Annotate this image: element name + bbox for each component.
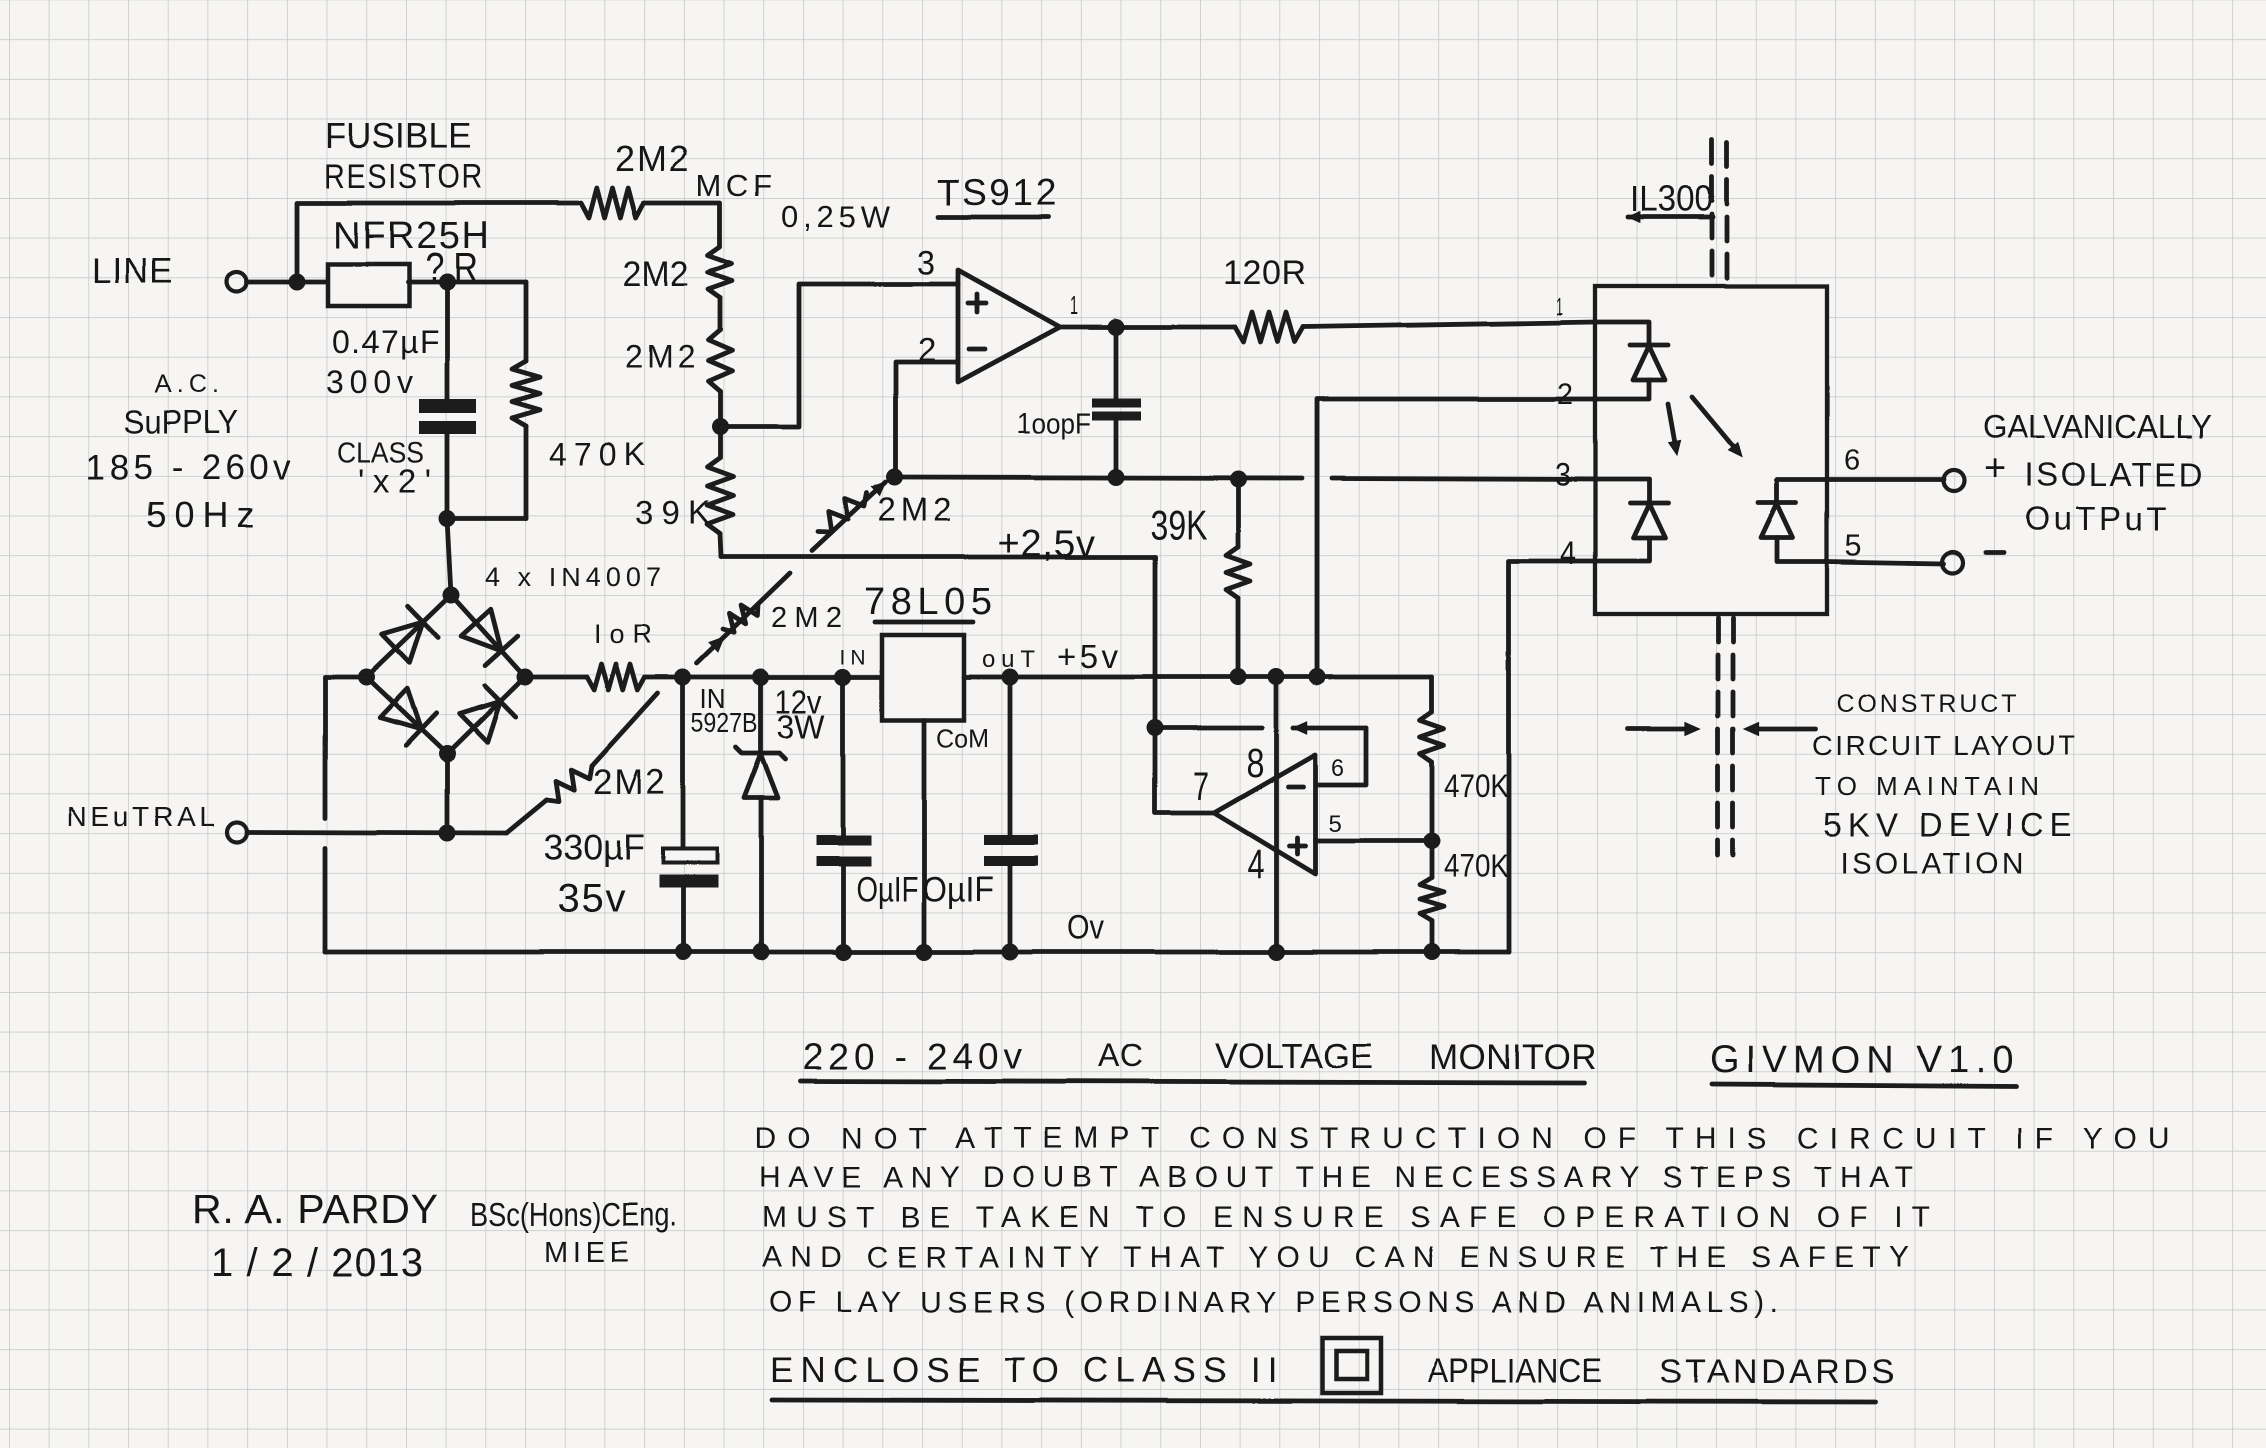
svg-text:1 / 2 / 2013: 1 / 2 / 2013 bbox=[211, 1241, 423, 1285]
svg-text:SuPPLY: SuPPLY bbox=[124, 403, 238, 440]
svg-text:4: 4 bbox=[1560, 535, 1576, 571]
svg-text:2M2: 2M2 bbox=[623, 255, 689, 294]
capacitor C1 plates bbox=[419, 399, 476, 413]
junction C5 on 0V rail bbox=[1002, 944, 1019, 961]
svg-text:4: 4 bbox=[1247, 841, 1264, 887]
svg-text:APPLIANCE: APPLIANCE bbox=[1428, 1352, 1602, 1390]
pot RV2 2M2 arrow line bbox=[697, 573, 790, 663]
svg-text:39K: 39K bbox=[1150, 501, 1207, 548]
U2 PD1 triangle bbox=[1633, 504, 1665, 538]
wire +5V rail bbox=[964, 675, 1432, 680]
junction C3 on 0V rail bbox=[675, 944, 692, 961]
svg-text:VOLTAGE: VOLTAGE bbox=[1215, 1037, 1373, 1076]
junction chain node bbox=[712, 419, 729, 436]
resistor R1 NFR25H fusible (box) bbox=[328, 264, 409, 306]
svg-text:330µF: 330µF bbox=[543, 827, 645, 868]
capacitor C2 bottom lead bbox=[1114, 420, 1119, 477]
svg-text:GALVANICALLY: GALVANICALLY bbox=[1983, 408, 2212, 445]
svg-text:OµIF: OµIF bbox=[856, 870, 918, 909]
junction U1A output node bbox=[1108, 319, 1125, 336]
U2 PD2 bottom lead bbox=[1777, 538, 1827, 562]
junction R11 on 0V rail bbox=[1424, 944, 1441, 961]
junction C3 on supply rail bbox=[675, 669, 692, 686]
wire 0V rail bbox=[325, 950, 1509, 955]
bridge edge wire bottom-left bbox=[366, 677, 447, 754]
resistor R6 470K bbox=[512, 361, 540, 426]
svg-text:7: 7 bbox=[1193, 765, 1209, 809]
U2 photodiode PD1 top lead bbox=[1595, 479, 1649, 503]
junction divider mid node bbox=[1424, 833, 1441, 850]
bridge edge wire bottom-right bbox=[447, 677, 525, 754]
wire LINE terminal to junction bbox=[247, 280, 297, 285]
U2 LED triangle bbox=[1633, 346, 1665, 380]
wire LINE node up and over to R2 bbox=[297, 203, 578, 282]
wire R3 to R4 bbox=[718, 298, 723, 330]
svg-text:CoM: CoM bbox=[936, 723, 989, 753]
resistor R9 39K bbox=[1226, 547, 1250, 598]
wire R2 to resistor chain top bbox=[644, 203, 720, 247]
svg-text:ISOLATED: ISOLATED bbox=[2025, 456, 2203, 493]
svg-text:5: 5 bbox=[1328, 811, 1341, 838]
enclose underline bbox=[772, 1400, 1875, 1402]
svg-text:1: 1 bbox=[1556, 293, 1563, 321]
wire left rail lower segment bbox=[323, 848, 328, 952]
svg-text:220 - 240v: 220 - 240v bbox=[803, 1036, 1023, 1077]
title underline left bbox=[801, 1081, 1584, 1083]
junction Z1 on supply rail bbox=[753, 669, 770, 686]
op-amp U1A minus sign bbox=[969, 347, 985, 352]
junction C4 on supply rail bbox=[835, 669, 852, 686]
wire R8 to IL300 pin1 bbox=[1303, 322, 1595, 327]
svg-text:6: 6 bbox=[1331, 755, 1344, 782]
wire bridge right node to R7 bbox=[525, 675, 587, 680]
wire bridge left node to left rail bbox=[325, 675, 366, 680]
op-amp U1A triangle bbox=[958, 270, 1060, 382]
capacitor C2 100pF top lead bbox=[1114, 327, 1119, 398]
junction pin2 wire on +5v rail bbox=[1309, 669, 1326, 686]
resistor R5 39K bbox=[707, 458, 733, 534]
svg-text:+2,5v: +2,5v bbox=[998, 523, 1095, 565]
wire R5 to +2.5v rail corner bbox=[720, 534, 721, 557]
svg-text:LINE: LINE bbox=[92, 252, 177, 291]
pot RV2 2M2 zigzag bbox=[723, 604, 758, 632]
svg-text:470K: 470K bbox=[1444, 848, 1509, 884]
svg-text:5: 5 bbox=[1845, 528, 1862, 563]
wire IL300 pin2 to +5v rail bbox=[1317, 399, 1595, 677]
svg-text:BSc(Hons)CEng.: BSc(Hons)CEng. bbox=[470, 1196, 677, 1233]
svg-text:Ov: Ov bbox=[1067, 909, 1104, 947]
wire cap node to bridge top bbox=[447, 518, 451, 595]
junction OUT node bbox=[1002, 669, 1019, 686]
resistor R8 120R bbox=[1235, 312, 1303, 342]
zener Z1 bottom lead bbox=[759, 798, 764, 952]
barrier arrow right bbox=[1752, 727, 1815, 732]
resistor R11 470K bbox=[1420, 878, 1444, 921]
svg-text:1oopF: 1oopF bbox=[1017, 408, 1091, 440]
svg-text:MUST BE TAKEN TO ENSURE SAFE O: MUST BE TAKEN TO ENSURE SAFE OPERATION O… bbox=[762, 1201, 1930, 1234]
wire U1B pin8 feed bbox=[1155, 726, 1262, 731]
resistor R4 2M2 bbox=[708, 330, 732, 392]
junction bridge right node bbox=[517, 669, 534, 686]
capacitor C5 0u1F top lead bbox=[1008, 677, 1013, 838]
svg-text:470K: 470K bbox=[1444, 768, 1509, 804]
svg-text:2M2: 2M2 bbox=[593, 763, 665, 802]
svg-text:FUSIBLE: FUSIBLE bbox=[325, 117, 474, 156]
capacitor C1 bottom lead bbox=[445, 434, 450, 518]
wire inverting node rail left bbox=[896, 477, 1302, 478]
svg-text:2M2: 2M2 bbox=[771, 602, 842, 634]
pot RV3 upper lead bbox=[592, 693, 658, 766]
wire chain junction to op-amp pin3 bbox=[720, 284, 958, 427]
svg-text:4 x IN4007: 4 x IN4007 bbox=[485, 562, 661, 592]
junction bridge left node bbox=[358, 669, 375, 686]
terminal LINE bbox=[227, 272, 247, 292]
wire R1 to cap node bbox=[408, 280, 526, 285]
pot RV1 2M2 arrow line bbox=[812, 482, 886, 551]
capacitor C4 bottom lead bbox=[841, 866, 846, 952]
U2 LED cathode bar bbox=[1630, 343, 1668, 348]
terminal output minus bbox=[1943, 553, 1964, 574]
pot RV1 2M2 zigzag bbox=[818, 493, 867, 533]
capacitor C2 plates bbox=[1092, 398, 1141, 407]
svg-text:OF LAY USERS (ORDINARY PERSONS: OF LAY USERS (ORDINARY PERSONS AND ANIMA… bbox=[769, 1286, 1778, 1319]
diode D3 1N4007 (left to bottom) bbox=[380, 689, 421, 730]
svg-text:CONSTRUCT: CONSTRUCT bbox=[1836, 690, 2016, 718]
junction R9 top on rail bbox=[1230, 471, 1247, 488]
bridge edge wire top-left bbox=[366, 595, 451, 677]
pot RV3 2M2 lower diagonal lead bbox=[506, 800, 546, 833]
label TS912 underline bbox=[938, 215, 1048, 220]
U2 light arrow 1 bbox=[1668, 404, 1676, 449]
pot RV3 2M2 zigzag bbox=[546, 766, 592, 802]
junction C2 bottom on rail bbox=[1108, 469, 1125, 486]
svg-text:TS912: TS912 bbox=[937, 172, 1056, 213]
regulator U3 78L05 box bbox=[882, 635, 964, 720]
svg-text:CIRCUIT LAYOUT: CIRCUIT LAYOUT bbox=[1812, 730, 2075, 761]
svg-text:OµIF: OµIF bbox=[922, 870, 994, 909]
wire U1A pin2 bbox=[896, 362, 958, 477]
isolation barrier bottom dashes bbox=[1716, 618, 1721, 855]
isolation barrier top dashes bbox=[1710, 140, 1715, 284]
junction U1B supply bottom bbox=[1268, 944, 1285, 961]
resistor R7 10R bbox=[587, 664, 645, 690]
svg-text:2: 2 bbox=[1557, 378, 1573, 411]
svg-text:3W: 3W bbox=[777, 708, 826, 745]
junction COM on 0V rail bbox=[916, 944, 933, 961]
net +2.5v rail bbox=[721, 555, 1155, 560]
junction C4 on 0V rail bbox=[835, 944, 852, 961]
wire +5v rail corner to R10 bbox=[1430, 677, 1435, 712]
svg-text:35v: 35v bbox=[557, 877, 625, 921]
junction NEUTRAL node bbox=[439, 825, 456, 842]
svg-text:RESISTOR: RESISTOR bbox=[324, 158, 484, 196]
diode D4 1N4007 (bottom to right) bbox=[459, 701, 500, 742]
capacitor C5 bottom lead bbox=[1008, 866, 1013, 952]
bridge edge wire top-right bbox=[451, 595, 525, 677]
svg-text:MIEE: MIEE bbox=[544, 1237, 629, 1269]
op-amp U1A plus sign bbox=[968, 301, 986, 306]
junction U1B feedback node bbox=[1147, 720, 1164, 737]
wire R11 to 0V rail bbox=[1430, 921, 1435, 952]
zener Z1 triangle bbox=[744, 754, 778, 798]
U2 LED bottom lead bbox=[1595, 380, 1649, 399]
junction bridge bottom node bbox=[439, 746, 456, 763]
svg-text:+: + bbox=[1984, 448, 2006, 490]
wire R10 to divider node bbox=[1430, 762, 1435, 841]
wire bridge bottom vertical bbox=[445, 754, 450, 833]
svg-text:2M2: 2M2 bbox=[625, 339, 695, 375]
resistor R10 470K bbox=[1420, 712, 1444, 762]
resistor R6 bottom lead bbox=[524, 426, 529, 518]
op-amp U1B triangle bbox=[1214, 755, 1315, 874]
svg-text:6: 6 bbox=[1844, 445, 1860, 477]
svg-text:ISOLATION: ISOLATION bbox=[1840, 847, 2024, 880]
svg-text:MONITOR: MONITOR bbox=[1429, 1038, 1596, 1077]
wire U3 COM bbox=[922, 720, 927, 952]
svg-text:IL300: IL300 bbox=[1630, 178, 1713, 219]
U2 light arrow 2 bbox=[1692, 397, 1737, 451]
U2 PD1 bottom lead bbox=[1595, 538, 1649, 561]
wire R7 to 78L05 IN bbox=[645, 675, 882, 680]
wire U2 pin5 to output terminal bbox=[1827, 562, 1944, 564]
label IL300 underline arrow bbox=[1628, 215, 1713, 220]
diode D2 1N4007 (top to right) bbox=[461, 609, 501, 651]
junction Z1 on 0V rail bbox=[753, 944, 770, 961]
U2 photodiode PD2 top lead bbox=[1777, 480, 1827, 503]
svg-text:120R: 120R bbox=[1223, 254, 1306, 292]
svg-text:1: 1 bbox=[1070, 290, 1078, 320]
junction inverting node bbox=[887, 469, 904, 486]
wire R4 to chain junction bbox=[718, 392, 723, 427]
label 78L05 underline bbox=[875, 620, 973, 625]
diode D1 1N4007 (left to top) bbox=[382, 622, 423, 663]
class II symbol bbox=[1322, 1338, 1381, 1393]
junction below C1 bbox=[439, 510, 456, 527]
wire LINE node to R1 bbox=[297, 280, 327, 285]
capacitor C3 330uF top lead bbox=[681, 677, 686, 849]
svg-text:5927B: 5927B bbox=[691, 707, 758, 738]
svg-text:39K: 39K bbox=[635, 494, 710, 531]
U2 LED top lead bbox=[1595, 322, 1649, 345]
svg-text:3: 3 bbox=[917, 244, 935, 282]
capacitor C3 plates bbox=[663, 849, 717, 863]
wire left rail upper segment bbox=[323, 677, 328, 818]
wire U2 pin6 to output terminal bbox=[1827, 478, 1944, 483]
svg-text:IN: IN bbox=[840, 646, 866, 669]
resistor R6 470K top lead bbox=[524, 282, 529, 361]
resistor R2 2M2 MCF bbox=[581, 188, 644, 218]
op-amp U1B minus sign bbox=[1288, 785, 1303, 790]
svg-text:MCF: MCF bbox=[696, 168, 772, 203]
wire divider node to R11 bbox=[1430, 841, 1435, 878]
junction LINE node bbox=[289, 274, 306, 291]
svg-text:STANDARDS: STANDARDS bbox=[1659, 1353, 1894, 1391]
svg-text:78L05: 78L05 bbox=[864, 581, 992, 623]
svg-text:R. A. PARDY: R. A. PARDY bbox=[192, 1186, 438, 1232]
wire supply through U1B bbox=[1274, 677, 1279, 952]
svg-text:+5v: +5v bbox=[1057, 638, 1119, 675]
capacitor C4 plates bbox=[816, 835, 871, 845]
wire chain junction to R5 bbox=[718, 427, 723, 458]
zener Z1 cathode bar bbox=[736, 747, 786, 759]
resistor R3 2M2 bbox=[708, 247, 732, 298]
zener Z1 1N5927B top lead bbox=[759, 677, 764, 753]
U2 PD2 triangle bbox=[1761, 504, 1793, 538]
capacitor C4 0u1F top lead bbox=[841, 677, 846, 838]
svg-text:AC: AC bbox=[1098, 1038, 1143, 1074]
label minus output bbox=[1986, 551, 2004, 556]
terminal output plus bbox=[1944, 471, 1965, 492]
svg-text:2M2: 2M2 bbox=[615, 138, 689, 179]
junction U1B supply top bbox=[1268, 669, 1285, 686]
wire U1B pin5 to divider bbox=[1315, 839, 1432, 844]
terminal NEUTRAL bbox=[227, 822, 247, 842]
capacitor C5 plates bbox=[984, 835, 1038, 845]
capacitor C3 bottom lead bbox=[681, 888, 686, 952]
wire U1A output bbox=[1060, 325, 1235, 330]
svg-text:0.47µF: 0.47µF bbox=[332, 324, 439, 360]
svg-text:185 - 260v: 185 - 260v bbox=[86, 448, 291, 487]
junction bridge top node bbox=[443, 587, 460, 604]
junction R9 on +5v rail bbox=[1230, 669, 1247, 686]
optocoupler U2 IL300 box bbox=[1595, 286, 1827, 614]
resistor R9 39K bottom lead bbox=[1236, 598, 1241, 677]
wire R6 bottom to cap node bbox=[447, 516, 526, 521]
svg-text:3: 3 bbox=[1555, 456, 1571, 492]
U2 PD1 cathode bar bbox=[1630, 501, 1668, 506]
svg-text:8: 8 bbox=[1246, 740, 1264, 786]
wire +2.5v vertical to U1B output bbox=[1155, 557, 1214, 813]
barrier arrow left bbox=[1628, 727, 1692, 732]
capacitor C1 0.47uF top lead bbox=[445, 282, 450, 399]
resistor R9 39K top lead bbox=[1236, 479, 1241, 547]
svg-text:2M2: 2M2 bbox=[878, 491, 952, 528]
wire NEUTRAL to bridge bottom bbox=[247, 832, 506, 833]
title underline right bbox=[1712, 1084, 2016, 1086]
wire IL300 pin4 to 0V rail bbox=[1509, 561, 1595, 952]
U2 PD2 cathode bar bbox=[1758, 501, 1796, 506]
junction IN node bbox=[835, 669, 852, 686]
junction cap node bbox=[439, 274, 456, 291]
wire U1B feedback loop bbox=[1318, 728, 1366, 785]
op-amp U1B plus sign bbox=[1289, 844, 1305, 849]
wire inverting node rail right bbox=[1332, 478, 1595, 479]
